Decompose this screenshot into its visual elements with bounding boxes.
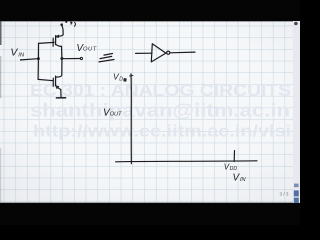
label V_IN (x axis)	[233, 172, 247, 183]
black bar notch	[65, 21, 67, 23]
svg-text:IN: IN	[18, 53, 25, 59]
label V_OUT (graph)	[103, 107, 122, 118]
axis Y top tick	[130, 74, 133, 77]
tick V_DD on X axis	[233, 151, 235, 162]
axis X V_IN	[116, 161, 257, 162]
page edge shadow	[0, 21, 2, 203]
node input junction	[37, 57, 40, 60]
graph paper	[0, 21, 300, 203]
wire inverter input	[136, 52, 152, 54]
bar soft edges	[0, 20, 300, 23]
transistor M2 NMOS source lead	[56, 86, 61, 97]
power V_DD	[60, 23, 63, 34]
wire input vertical	[37, 43, 39, 79]
scrollbar up button	[294, 22, 298, 26]
ground	[56, 97, 65, 99]
label V_IN (left)	[10, 46, 25, 58]
svg-text:OUT: OUT	[110, 111, 122, 117]
transistor M1 PMOS channel bar	[55, 36, 57, 45]
transistor M2 NMOS source arrow	[56, 86, 59, 89]
toolbar icon 3	[294, 198, 299, 203]
equivalence symbol	[99, 54, 114, 62]
svg-text:EC 301 : ANALOG CIRCUITS: EC 301 : ANALOG CIRCUITS	[30, 80, 291, 100]
transistor M1 PMOS source arrow	[56, 35, 59, 38]
inverter bubble	[167, 51, 170, 54]
axis Y V_O	[130, 74, 132, 164]
svg-text:D: D	[119, 76, 123, 82]
transistor M2 NMOS channel bar	[55, 76, 57, 85]
wire gate branch to M2	[38, 79, 53, 80]
transistor M1 PMOS drain lead	[56, 44, 62, 46]
wire node to M2 drain	[56, 59, 62, 78]
svg-text:DD: DD	[230, 166, 238, 172]
label V_OUT (circuit)	[76, 43, 96, 54]
svg-text:3 / 3: 3 / 3	[280, 191, 289, 196]
node V_IN wire start dot	[20, 59, 22, 61]
scrollbar strip	[293, 21, 300, 203]
wire gate branch to M1	[39, 42, 55, 43]
wire drain to output node	[61, 46, 63, 58]
label V_DD subscript	[71, 22, 76, 27]
paper vignette	[0, 21, 300, 203]
node output junction	[60, 57, 63, 60]
transistor M2 NMOS gate bar	[52, 78, 54, 86]
svg-text:V: V	[10, 46, 18, 58]
label V_D point (graph top)	[113, 72, 127, 83]
wire inverter output	[170, 51, 195, 54]
svg-text:OUT: OUT	[83, 46, 97, 52]
label V_DD (x axis)	[224, 162, 238, 172]
svg-text:IN: IN	[240, 177, 247, 183]
terminal V_OUT open circle	[80, 57, 82, 59]
transistor M1 PMOS source lead	[58, 35, 63, 37]
toolbar icon 2	[294, 190, 299, 196]
transistor M1 PMOS gate bar	[52, 38, 54, 46]
svg-text:shanthipavan@iitm.ac.in: shanthipavan@iitm.ac.in	[30, 101, 290, 121]
inverter gate U1	[151, 44, 166, 62]
svg-text:http://www.ee.iitm.ac.in/vlsi: http://www.ee.iitm.ac.in/vlsi	[33, 122, 291, 141]
toolbar icon 1	[294, 184, 299, 188]
wire V_IN lead	[21, 59, 38, 60]
wire output to terminal	[62, 58, 80, 60]
